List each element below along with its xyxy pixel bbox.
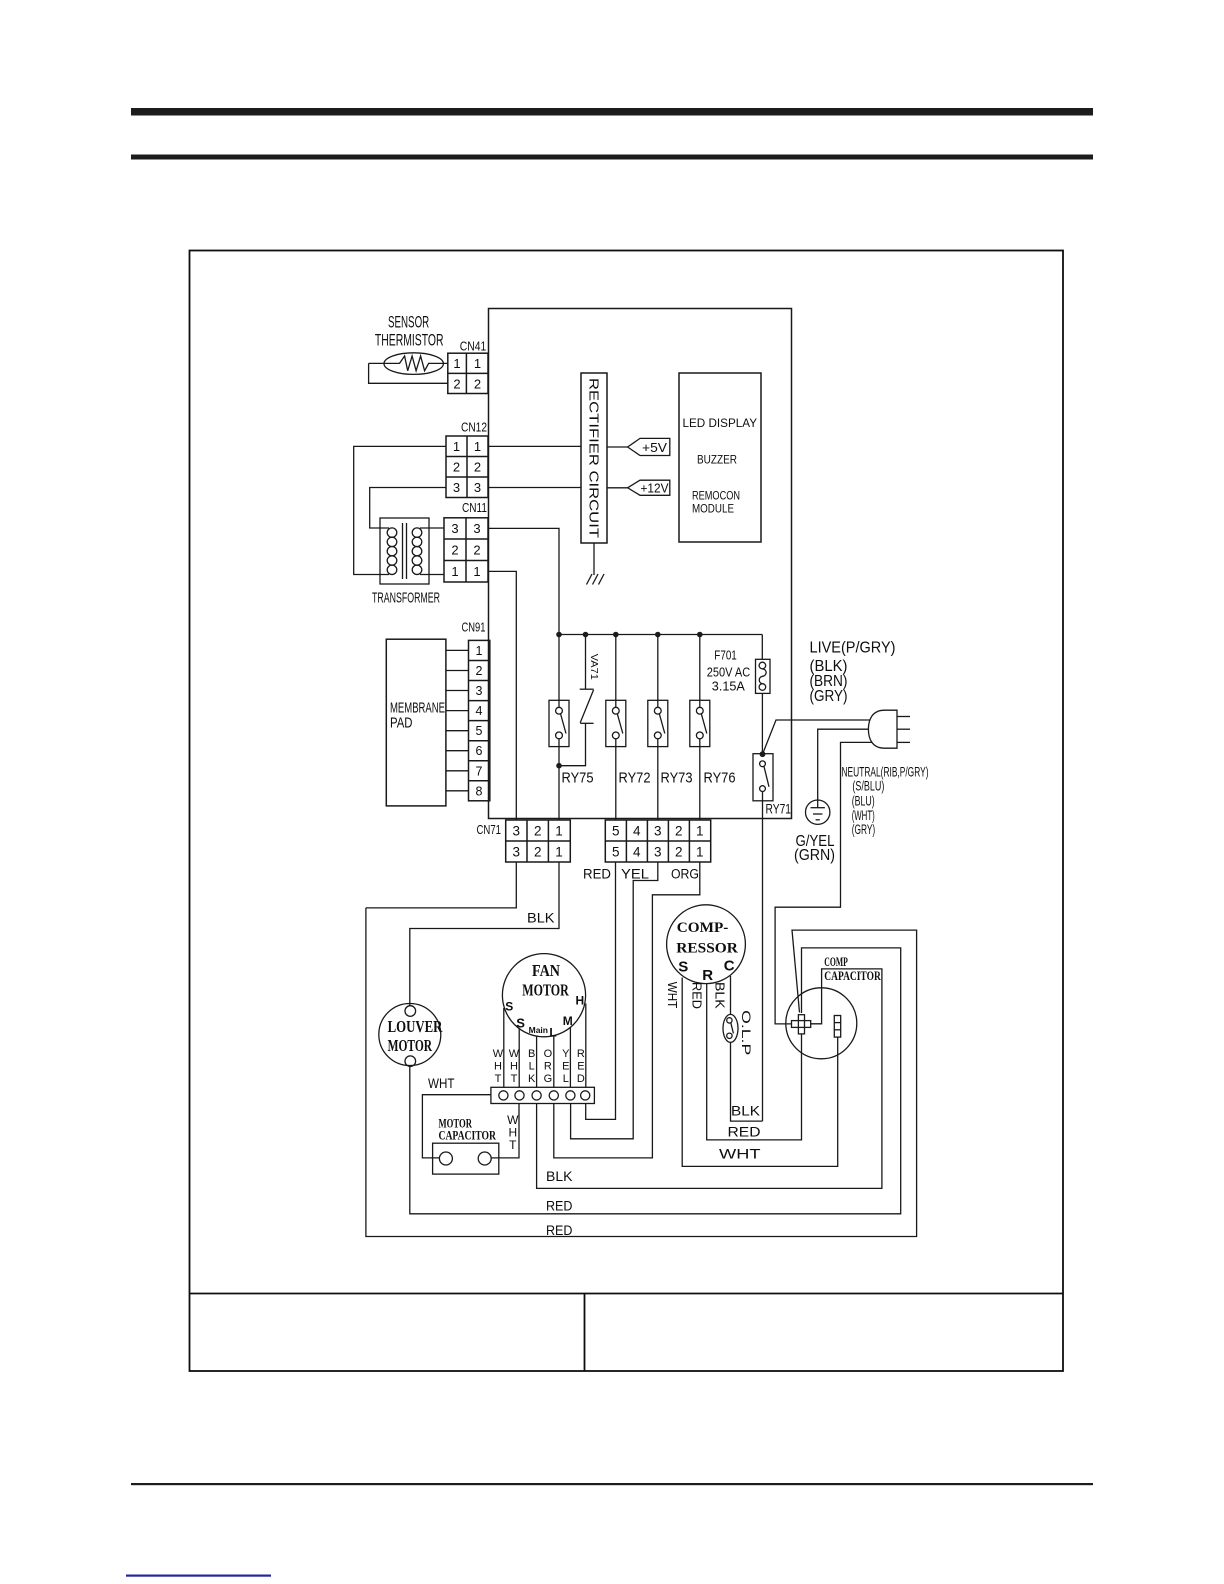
svg-text:F701: F701 <box>714 649 737 663</box>
svg-text:RY76: RY76 <box>704 770 736 787</box>
svg-text:BLK: BLK <box>731 1103 760 1118</box>
svg-text:1: 1 <box>696 824 704 839</box>
top rule 2 <box>131 155 1093 160</box>
node junction dot VA71/RY75 output <box>556 763 562 769</box>
svg-text:2: 2 <box>675 845 683 860</box>
wire CN11 pin3 to relay supply rail <box>488 528 559 634</box>
svg-text:RED: RED <box>728 1125 761 1140</box>
svg-text:MODULE: MODULE <box>692 502 734 516</box>
louver motor <box>379 1004 441 1067</box>
svg-text:2: 2 <box>675 824 683 839</box>
power plug <box>868 710 910 748</box>
wire YEL CN71-B pin3 to fan strip T5 <box>571 862 658 1139</box>
svg-text:FAN: FAN <box>532 961 560 980</box>
svg-text:2: 2 <box>534 845 542 860</box>
wire WHT compressor S to comp capacitor <box>682 978 838 1167</box>
svg-text:E: E <box>562 1061 569 1073</box>
wire ORG CN71-B pin1 to fan strip T4 <box>554 862 700 1158</box>
svg-text:1: 1 <box>453 439 460 454</box>
connector CN71 group A (3-2-1) <box>506 820 571 862</box>
comp capacitor right terminal <box>834 1016 840 1038</box>
svg-text:5: 5 <box>612 824 620 839</box>
svg-text:BLK: BLK <box>546 1169 573 1184</box>
footer table divider <box>584 1294 586 1372</box>
wire BLK fan strip T3 to comp capacitor <box>537 969 882 1189</box>
svg-text:2: 2 <box>474 376 481 391</box>
svg-text:1: 1 <box>476 644 483 658</box>
svg-text:(GRY): (GRY) <box>810 688 848 705</box>
wire RED2 to comp capacitor (via page bottom) <box>366 908 917 1237</box>
relay RY75 <box>549 635 569 821</box>
svg-text:8: 8 <box>476 784 483 798</box>
svg-text:3: 3 <box>654 824 662 839</box>
footer table top line <box>190 1293 1064 1295</box>
svg-text:3: 3 <box>474 480 481 495</box>
svg-text:H: H <box>575 994 584 1008</box>
svg-text:CN71: CN71 <box>477 823 502 837</box>
wire live from plug to RY71 <box>763 720 871 754</box>
wires fan motor to terminal strip <box>504 1004 586 1088</box>
svg-text:S: S <box>516 1016 525 1031</box>
wire WHT fan strip T1 to motor capacitor <box>422 1095 491 1158</box>
svg-text:(GRY): (GRY) <box>852 822 876 837</box>
svg-text:WHT: WHT <box>719 1147 761 1162</box>
svg-text:C: C <box>724 958 735 975</box>
wire RED1 louver motor to comp capacitor <box>410 948 901 1214</box>
CN11 pin numbers <box>451 521 480 579</box>
svg-text:TRANSFORMER: TRANSFORMER <box>372 590 440 607</box>
transformer core <box>402 523 404 579</box>
svg-text:5: 5 <box>476 724 483 738</box>
wire BLK compressor C to O.L.P <box>730 976 732 1015</box>
thermistor RT (ellipse body) <box>384 353 443 375</box>
svg-text:CN12: CN12 <box>461 421 487 435</box>
transformer primary winding <box>387 528 397 575</box>
wire rectifier to +5V flag <box>607 446 628 448</box>
svg-text:MOTOR: MOTOR <box>522 981 569 1000</box>
svg-text:CAPACITOR: CAPACITOR <box>439 1128 497 1143</box>
svg-text:2: 2 <box>476 664 483 678</box>
fan motor <box>502 954 585 1037</box>
svg-text:D: D <box>577 1073 585 1085</box>
CN12 pin numbers <box>453 439 481 495</box>
svg-text:2: 2 <box>453 376 460 391</box>
svg-text:ORG: ORG <box>671 867 699 882</box>
svg-text:COMP-: COMP- <box>677 920 729 936</box>
varistor VA71 <box>559 635 594 766</box>
svg-text:H: H <box>494 1061 502 1073</box>
svg-text:CN41: CN41 <box>460 340 487 354</box>
svg-text:3: 3 <box>451 521 458 536</box>
svg-text:+5V: +5V <box>642 441 668 455</box>
svg-text:BLK: BLK <box>527 911 555 926</box>
svg-text:+12V: +12V <box>641 481 670 495</box>
svg-text:E: E <box>577 1061 584 1073</box>
wire CN12 pin3 to rectifier (+12V rail) <box>488 487 581 489</box>
connector CN91 <box>469 640 490 800</box>
svg-text:K: K <box>528 1073 536 1085</box>
svg-text:4: 4 <box>633 845 641 860</box>
thermistor resistor zigzag <box>369 356 448 371</box>
relay RY72 <box>606 635 626 821</box>
svg-text:SENSOR: SENSOR <box>388 313 429 332</box>
svg-text:RY71: RY71 <box>766 801 792 817</box>
compressor <box>667 905 746 984</box>
CN41 pin numbers <box>453 356 481 391</box>
comp capacitor <box>786 988 857 1059</box>
node junction dot RY71 input <box>760 751 766 757</box>
wire rectifier to ground <box>593 543 595 575</box>
svg-text:4: 4 <box>476 704 483 718</box>
svg-text:3: 3 <box>473 521 480 536</box>
wires membrane pad to CN91 <box>446 650 469 790</box>
svg-text:REMOCON: REMOCON <box>692 489 740 503</box>
wire BLK O.L.P to RY71 output <box>731 1042 763 1121</box>
svg-text:5: 5 <box>612 845 620 860</box>
svg-text:6: 6 <box>476 744 483 758</box>
svg-text:RED: RED <box>546 1199 573 1214</box>
earth ground symbol <box>806 800 830 824</box>
top rule 1 <box>131 108 1093 116</box>
wire transformer secondary bottom to CN11 pin1 <box>420 574 444 576</box>
svg-text:WHT: WHT <box>428 1076 455 1091</box>
svg-text:(WHT): (WHT) <box>852 808 875 823</box>
svg-text:LED DISPLAY: LED DISPLAY <box>683 416 758 430</box>
wire earth from plug to ground <box>818 729 869 800</box>
svg-text:RY75: RY75 <box>562 770 594 787</box>
svg-text:(GRN): (GRN) <box>794 847 835 864</box>
svg-text:7: 7 <box>476 764 483 778</box>
connector CN41 <box>448 353 488 393</box>
svg-text:G: G <box>544 1073 553 1085</box>
svg-text:WHT: WHT <box>665 982 680 1009</box>
CN91 pin numbers <box>476 644 483 798</box>
svg-text:R: R <box>577 1048 585 1060</box>
bottom rule <box>131 1483 1093 1485</box>
wire CN12 pin1 to transformer primary bottom <box>354 446 446 574</box>
svg-text:2: 2 <box>453 459 460 474</box>
svg-text:1: 1 <box>453 356 460 371</box>
outer frame <box>190 251 1064 1372</box>
wire rectifier to +12V flag <box>607 487 628 489</box>
membrane pad box <box>386 639 446 806</box>
wire CN71-A pin1 to louver motor <box>410 862 559 1006</box>
svg-text:T: T <box>495 1073 502 1085</box>
svg-text:LOUVER: LOUVER <box>388 1017 444 1036</box>
main PCB box <box>489 309 792 819</box>
svg-text:L: L <box>549 1026 556 1040</box>
svg-text:3.15A: 3.15A <box>712 680 746 694</box>
fuse F701 <box>756 659 771 693</box>
svg-text:1: 1 <box>451 564 458 579</box>
wire CN12 pin1 to rectifier (+5V rail) <box>488 445 581 447</box>
svg-text:MOTOR: MOTOR <box>388 1036 433 1055</box>
wire neutral from plug to comp capacitor <box>775 742 872 1024</box>
relay RY73 <box>648 635 668 821</box>
svg-text:LIVE(P/GRY): LIVE(P/GRY) <box>810 640 896 657</box>
svg-text:YEL: YEL <box>621 867 650 882</box>
LED display / buzzer / remocon module box <box>679 373 761 542</box>
motor capacitor <box>433 1143 499 1174</box>
svg-text:3: 3 <box>476 684 483 698</box>
svg-text:W: W <box>493 1048 504 1060</box>
svg-text:(BLU): (BLU) <box>852 794 875 809</box>
svg-text:BLK: BLK <box>712 982 727 1009</box>
wire rail to fuse F701 <box>761 635 763 660</box>
svg-text:T: T <box>511 1073 518 1085</box>
svg-text:RY73: RY73 <box>661 770 693 787</box>
svg-text:3: 3 <box>453 480 460 495</box>
wire RED compressor R to comp capacitor <box>707 984 802 1140</box>
transformer body box <box>380 518 429 584</box>
fan terminal strip <box>491 1087 595 1103</box>
wire RY71 output (BLK) down <box>762 792 764 1122</box>
wire CN11 pin1 to CN71 pin3 <box>488 571 516 820</box>
svg-text:(S/BLU): (S/BLU) <box>852 778 884 793</box>
svg-text:L: L <box>529 1061 535 1073</box>
svg-text:1: 1 <box>696 845 704 860</box>
svg-text:4: 4 <box>633 824 641 839</box>
+12V flag <box>628 480 670 495</box>
svg-text:COMP: COMP <box>824 954 848 969</box>
svg-text:O: O <box>544 1048 553 1060</box>
svg-text:VA71: VA71 <box>588 654 600 680</box>
svg-text:S: S <box>505 1000 513 1014</box>
ground (chassis) <box>587 574 605 585</box>
svg-text:THERMISTOR: THERMISTOR <box>375 331 444 350</box>
svg-text:H: H <box>510 1061 518 1073</box>
connector CN11 <box>444 518 488 582</box>
connector CN12 <box>446 436 488 498</box>
wire WHT fan strip T2 to motor capacitor <box>491 1104 519 1158</box>
svg-text:PAD: PAD <box>390 715 413 732</box>
svg-text:1: 1 <box>474 356 481 371</box>
svg-text:Main: Main <box>529 1025 548 1035</box>
wire transformer secondary top to CN11 pin3 <box>420 527 444 529</box>
connector CN71 group B (5-4-3-2-1) <box>605 820 710 862</box>
svg-text:3: 3 <box>513 824 521 839</box>
svg-text:T: T <box>509 1138 517 1152</box>
+5V flag <box>628 438 670 455</box>
svg-text:CN11: CN11 <box>462 501 487 515</box>
svg-text:1: 1 <box>473 564 480 579</box>
svg-text:B: B <box>528 1048 535 1060</box>
svg-text:RED: RED <box>689 982 704 1009</box>
svg-text:2: 2 <box>451 542 458 557</box>
footer blue line <box>126 1575 271 1577</box>
svg-text:1: 1 <box>555 824 563 839</box>
svg-text:CAPACITOR: CAPACITOR <box>824 968 881 983</box>
svg-text:W: W <box>509 1048 520 1060</box>
svg-text:Y: Y <box>562 1048 570 1060</box>
rectifier circuit box U <box>581 373 607 543</box>
svg-text:2: 2 <box>473 542 480 557</box>
svg-text:2: 2 <box>474 459 481 474</box>
svg-text:R: R <box>544 1061 552 1073</box>
svg-text:CN91: CN91 <box>462 621 486 635</box>
svg-text:1: 1 <box>474 439 481 454</box>
relay RY71 <box>753 754 773 801</box>
overload protector O.L.P <box>723 1014 738 1042</box>
wire BLK from CN71-A pin3 <box>366 862 516 908</box>
svg-text:250V AC: 250V AC <box>707 666 751 680</box>
relay supply rail <box>559 634 762 636</box>
svg-text:S: S <box>678 959 688 976</box>
comp capacitor cross terminal <box>792 1015 811 1034</box>
svg-text:2: 2 <box>534 824 542 839</box>
svg-text:RY72: RY72 <box>619 770 651 787</box>
wire CN12 pin3 to transformer primary top <box>370 488 446 529</box>
svg-text:RECTIFIER CIRCUIT: RECTIFIER CIRCUIT <box>587 378 602 538</box>
svg-text:3: 3 <box>654 845 662 860</box>
fan motor terminal letters <box>505 994 584 1040</box>
transformer secondary winding <box>412 528 422 575</box>
svg-text:NEUTRAL(RIB,P/GRY): NEUTRAL(RIB,P/GRY) <box>842 765 929 780</box>
svg-text:BUZZER: BUZZER <box>697 453 737 467</box>
node junction dots on rail <box>556 632 562 638</box>
svg-text:L: L <box>563 1073 569 1085</box>
wire RED CN71-B pin5 to fan strip T6 <box>586 862 616 1119</box>
svg-text:O.L.P: O.L.P <box>739 1010 753 1055</box>
wire fuse to relay RY71 <box>761 693 763 753</box>
thermistor lead loop wire to CN41 pin2 <box>369 363 448 383</box>
svg-text:M: M <box>563 1014 573 1028</box>
relay RY76 <box>690 635 710 821</box>
svg-text:3: 3 <box>513 845 521 860</box>
svg-text:RED: RED <box>583 867 611 882</box>
compressor terminal letters S R C <box>678 958 734 985</box>
svg-text:1: 1 <box>555 845 563 860</box>
svg-text:RED: RED <box>546 1223 573 1238</box>
fan wire colour labels (stacked) <box>493 1048 585 1085</box>
svg-text:RESSOR: RESSOR <box>676 941 738 957</box>
